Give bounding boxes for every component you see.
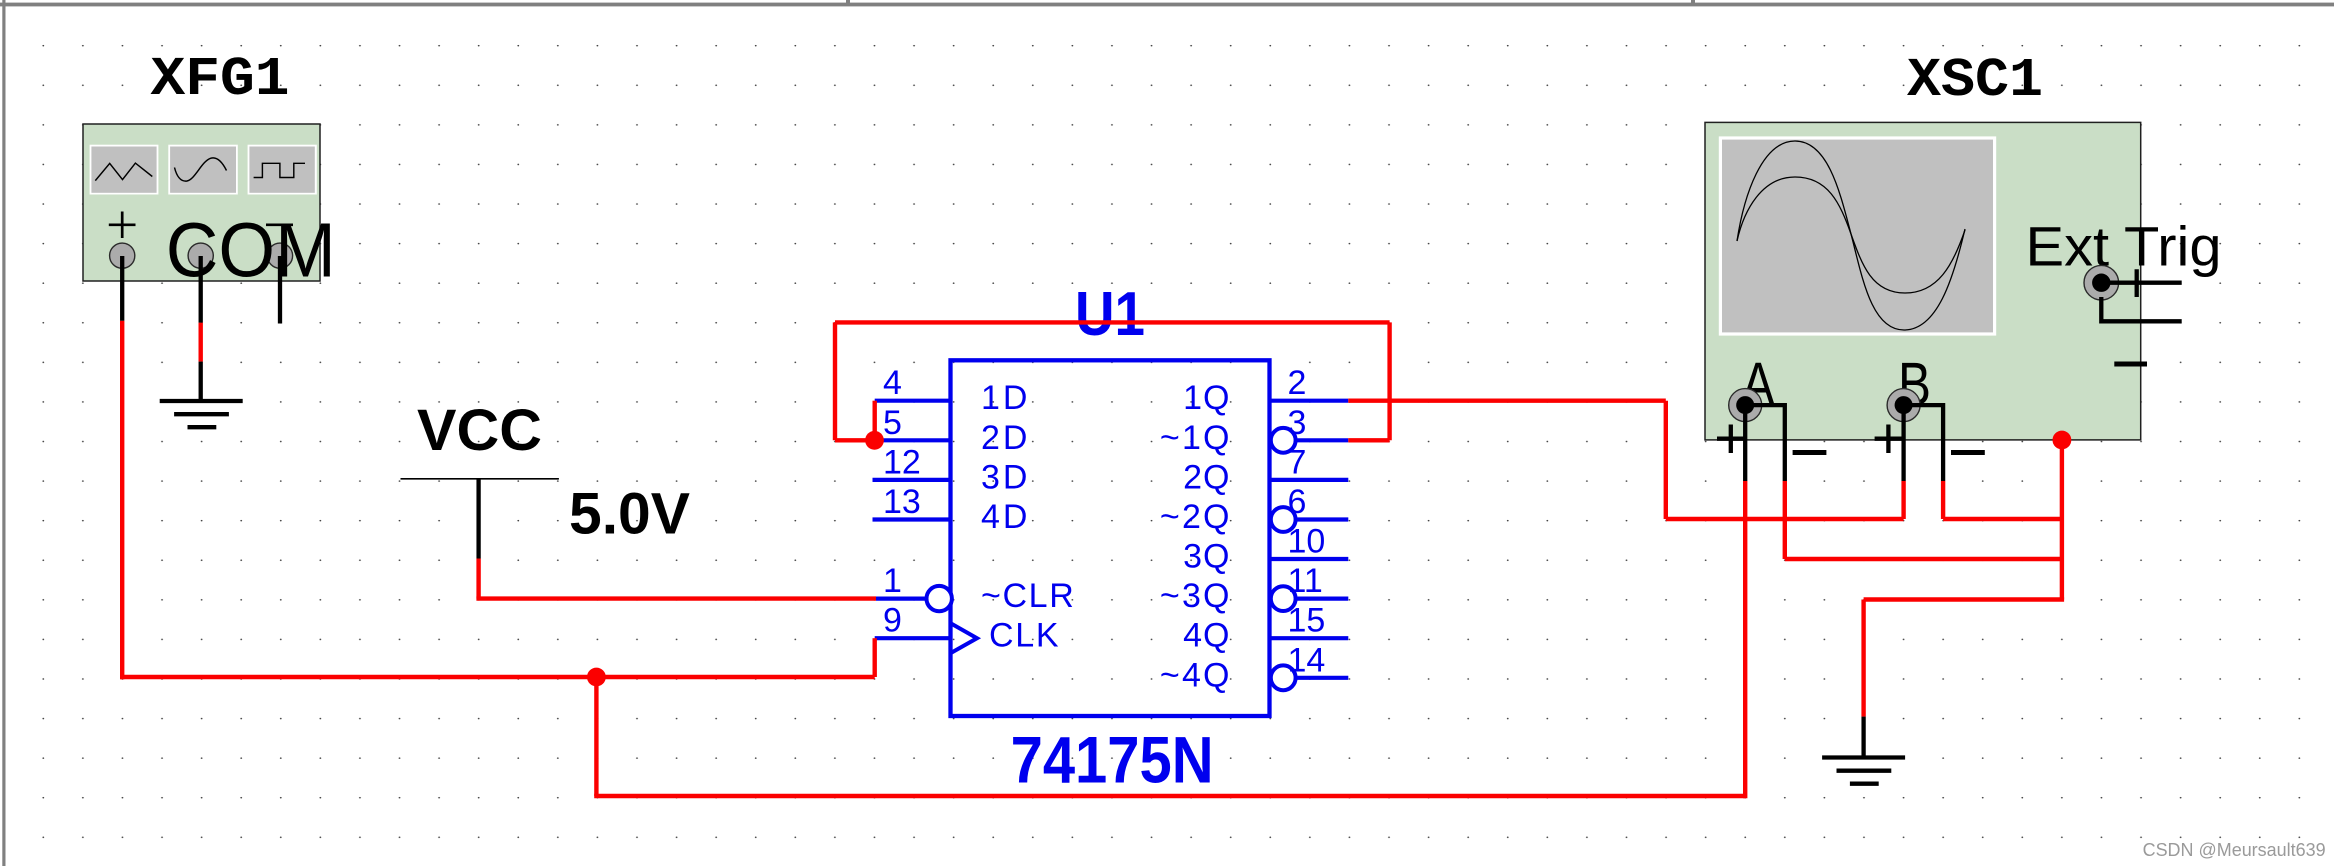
- page tick 2: [1691, 0, 1695, 3]
- pin 10 stub (3Q): [1270, 557, 1349, 561]
- svg-text:10: 10: [1288, 523, 1326, 561]
- wire 1Q to the right: [1348, 399, 1666, 403]
- page tick 1: [846, 0, 850, 3]
- svg-text:3: 3: [1288, 404, 1307, 442]
- svg-text:6: 6: [1288, 483, 1307, 521]
- pin 4 stub (1D): [875, 399, 951, 403]
- svg-text:7: 7: [1288, 443, 1307, 481]
- svg-text:U1: U1: [1075, 280, 1145, 349]
- XFG1 terminal COM: [188, 243, 213, 268]
- function generator XFG1 body: [83, 124, 320, 281]
- wire scope node drop: [2060, 440, 2064, 600]
- svg-text:4: 4: [883, 364, 902, 402]
- junction dot at pin 5: [865, 431, 884, 450]
- svg-text:4D: 4D: [981, 498, 1027, 536]
- junction dot at CLK rail: [587, 668, 606, 687]
- wire COM ground lead: [199, 362, 203, 401]
- wire 1Q drop: [1664, 401, 1668, 519]
- pin 11 inversion bubble: [1271, 586, 1296, 611]
- svg-text:~1Q: ~1Q: [1160, 419, 1230, 457]
- svg-text:~3Q: ~3Q: [1160, 577, 1230, 615]
- Ext Trig minus lead: [2101, 297, 2181, 321]
- pin 3 stub (~1Q): [1296, 438, 1348, 442]
- VCC lead: [476, 479, 480, 559]
- wire feedback into pin 5: [835, 438, 875, 442]
- wire XFG1 COM red segment: [198, 323, 202, 362]
- pin 7 stub (2Q): [1270, 478, 1349, 482]
- wire XFG1 - stub: [278, 256, 282, 324]
- wire XFG1 COM stub: [199, 256, 203, 323]
- svg-text:Ext Trig: Ext Trig: [2026, 215, 2222, 278]
- svg-text:VCC: VCC: [417, 398, 542, 463]
- XFG1 minus polarity mark: [266, 223, 293, 226]
- svg-text:1Q: 1Q: [1183, 379, 1229, 417]
- svg-text:3D: 3D: [981, 458, 1027, 496]
- wire to CLK horizontal: [120, 675, 875, 679]
- pin 1 inversion bubble: [927, 586, 952, 611]
- Ext Trig terminal: [2084, 265, 2119, 300]
- svg-text:74175N: 74175N: [1011, 722, 1214, 796]
- pin 15 stub (4Q): [1270, 636, 1349, 640]
- wire scope node to ground riser: [1864, 597, 2065, 601]
- wire scope ground lead: [1861, 717, 1865, 758]
- svg-text:5.0V: 5.0V: [569, 482, 690, 547]
- wire B- to scope ground node: [1943, 517, 2062, 521]
- wire junction drop to bottom rail: [594, 677, 598, 796]
- pin 12 stub (3D): [873, 478, 951, 482]
- pin 2 stub (1Q): [1270, 399, 1349, 403]
- Ext Trig minus mark: [2114, 362, 2147, 367]
- channel B minus mark: [1951, 450, 1985, 455]
- channel A plus lead: [1743, 405, 1747, 481]
- svg-text:XSC1: XSC1: [1907, 49, 2043, 112]
- wire XFG1 + down: [120, 321, 124, 680]
- junction dot at scope bottom: [2053, 431, 2072, 450]
- svg-text:2Q: 2Q: [1183, 458, 1229, 496]
- svg-text:CSDN @Meursault639: CSDN @Meursault639: [2143, 839, 2326, 860]
- svg-text:CLK: CLK: [989, 617, 1059, 655]
- wire VCC drop: [476, 559, 480, 599]
- svg-text:COM: COM: [166, 208, 336, 294]
- wire XFG1 + stub: [120, 256, 124, 321]
- svg-text:XFG1: XFG1: [151, 48, 290, 111]
- screen waveform trace 1: [1737, 141, 1965, 330]
- wire ~1Q riser: [1387, 322, 1391, 440]
- ground symbol 1: [160, 401, 243, 427]
- channel A minus lead: [1745, 405, 1785, 481]
- channel B terminal: [1887, 389, 1920, 422]
- wire bottom rail to scope A+: [594, 794, 1745, 798]
- window left border: [2, 0, 5, 866]
- pin 5 stub (2D): [875, 438, 951, 442]
- svg-text:2D: 2D: [981, 419, 1027, 457]
- XFG1 sine-wave button: [168, 145, 238, 195]
- svg-text:3Q: 3Q: [1183, 538, 1229, 576]
- svg-text:12: 12: [883, 443, 921, 481]
- wire ~1Q stub extension: [1348, 438, 1389, 442]
- pin 3 inversion bubble: [1271, 428, 1296, 453]
- wire to B+ horizontal: [1666, 517, 1904, 521]
- wire pin 4 link: [873, 401, 877, 441]
- pin 6 stub (~2Q): [1296, 517, 1348, 521]
- CLK edge triangle: [952, 624, 978, 653]
- pin 11 stub (~3Q): [1296, 596, 1348, 600]
- pin 9 stub (CLK): [875, 636, 951, 640]
- pin 13 stub (4D): [873, 517, 951, 521]
- svg-text:15: 15: [1288, 602, 1326, 640]
- svg-text:11: 11: [1288, 562, 1323, 600]
- channel B plus lead: [1901, 405, 1905, 481]
- chip U1 body: [951, 360, 1270, 716]
- Ext Trig plus lead: [2101, 269, 2181, 297]
- wire B- down: [1941, 481, 1945, 519]
- ground symbol 2: [1822, 758, 1905, 784]
- channel A plus mark: [1717, 425, 1745, 454]
- wire feedback left drop: [833, 322, 837, 440]
- oscilloscope XSC1 body: [1705, 122, 2141, 440]
- wire B+ riser: [1901, 481, 1905, 519]
- wire down to ground 2: [1861, 600, 1865, 717]
- svg-text:~4Q: ~4Q: [1160, 656, 1230, 694]
- channel B plus mark: [1875, 425, 1903, 454]
- svg-text:2: 2: [1288, 364, 1307, 402]
- svg-text:5: 5: [883, 404, 902, 442]
- XFG1 terminal +: [110, 243, 135, 268]
- pin 6 inversion bubble: [1271, 507, 1296, 532]
- svg-text:~2Q: ~2Q: [1160, 498, 1230, 536]
- svg-text:13: 13: [883, 483, 921, 521]
- VCC power symbol bar: [401, 478, 559, 480]
- channel A minus mark: [1793, 450, 1827, 455]
- wire A+ riser: [1743, 481, 1747, 798]
- XFG1 terminal -: [267, 243, 292, 268]
- wire feedback top: [835, 320, 1390, 324]
- XSC1 screen: [1719, 136, 1996, 335]
- channel B minus lead: [1904, 405, 1944, 481]
- pin 1 stub (~CLR): [876, 596, 927, 600]
- XFG1 square-wave button: [248, 145, 317, 195]
- svg-text:9: 9: [883, 602, 902, 640]
- wire riser to pin 9 CLK: [873, 638, 877, 677]
- XFG1 triangle-wave button: [90, 145, 159, 195]
- wire VCC to pin 1 ~CLR: [476, 596, 876, 600]
- svg-text:1D: 1D: [981, 379, 1027, 417]
- svg-text:4Q: 4Q: [1183, 617, 1229, 655]
- svg-text:1: 1: [883, 562, 902, 600]
- screen waveform trace 2: [1737, 177, 1965, 293]
- pin 14 stub (~4Q): [1296, 676, 1348, 680]
- window top border: [0, 3, 2334, 7]
- pin 14 inversion bubble: [1271, 665, 1296, 690]
- wire A- to scope ground node: [1785, 557, 2062, 561]
- svg-text:14: 14: [1288, 641, 1326, 679]
- wire A- down: [1783, 481, 1787, 559]
- channel A terminal: [1729, 389, 1762, 422]
- XFG1 plus polarity mark: [109, 212, 136, 239]
